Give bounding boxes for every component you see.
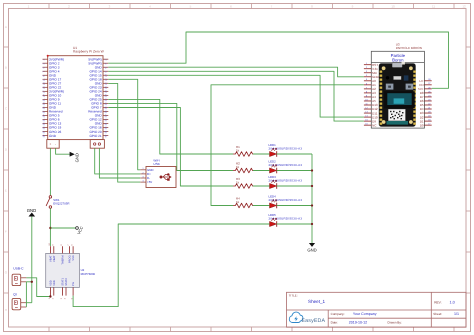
wire switch to VCC junction and U2 VBAT xyxy=(49,208,51,246)
connector USB test-pad header J2 xyxy=(90,140,104,149)
wire LED3 cathode to GND bus xyxy=(277,185,312,187)
svg-text:204-10SURD/S530-A3: 204-10SURD/S530-A3 xyxy=(269,198,303,202)
svg-text:Boron: Boron xyxy=(392,58,404,63)
wire RPi GPIO8 to R2 xyxy=(108,103,233,170)
Boron dev board image xyxy=(379,62,416,127)
svg-text:1k: 1k xyxy=(236,180,240,184)
svg-text:USB: USB xyxy=(153,162,159,166)
svg-text:A: A xyxy=(5,25,7,29)
resistor R1 1k xyxy=(233,145,253,156)
svg-text:1k: 1k xyxy=(236,165,240,169)
svg-text:GND: GND xyxy=(49,134,57,138)
svg-text:PROG: PROG xyxy=(69,255,72,263)
wire RPi GPIO14 to Boron D9 xyxy=(108,71,364,121)
resistor R4 1k xyxy=(233,196,253,207)
svg-text:STAT2: STAT2 xyxy=(65,278,68,286)
wire USB-C lower pin to QI lower pin xyxy=(25,282,27,307)
wire USB-C GND pin to GND net xyxy=(26,281,31,283)
wire RPi GND to WIFI USB +5V xyxy=(108,83,140,182)
wire LED1 cathode to GND bus xyxy=(277,153,312,155)
svg-text:Company:: Company: xyxy=(331,312,345,316)
svg-text:QI: QI xyxy=(13,292,17,296)
LED3 204-10SURD/S530-A3 xyxy=(269,175,303,189)
wire RPi GPIO15 to Boron D10 xyxy=(108,75,364,117)
svg-text:USB-C: USB-C xyxy=(13,267,24,271)
wire GND: RPi GND to Boron GND xyxy=(108,67,364,77)
wire resistor R3 to LED3 xyxy=(253,185,270,187)
wire USB-C VBUS pin to U2 VDD xyxy=(26,278,50,297)
junction xyxy=(31,281,33,283)
svg-text:VDD: VDD xyxy=(53,280,56,286)
svg-text:1k: 1k xyxy=(236,148,240,152)
svg-text:VSS: VSS xyxy=(72,255,75,260)
svg-text:1/1: 1/1 xyxy=(454,312,459,316)
wire pad D- to WIFI USB D- xyxy=(99,148,140,178)
wire LED GND bus vertical xyxy=(311,154,313,243)
svg-text:GPIO 21: GPIO 21 xyxy=(89,134,101,138)
wire RPi GPIO18 to WIFI USB GND xyxy=(108,79,140,170)
junction xyxy=(311,169,313,171)
svg-text:204-10SURD/S530-A3: 204-10SURD/S530-A3 xyxy=(269,178,303,182)
resistor R3 1k xyxy=(233,177,253,188)
connector battery header J1 (+ -) xyxy=(47,140,59,149)
svg-text:10: 10 xyxy=(391,4,395,8)
wire pad D+ to WIFI USB D+ xyxy=(95,148,141,174)
component WIFI USB xyxy=(140,158,176,187)
wire U2 PG to LED5 xyxy=(73,224,269,307)
junction xyxy=(311,185,313,187)
power flag VCC xyxy=(76,225,85,235)
svg-text:H: H xyxy=(5,308,7,312)
svg-text:PARTICLE BORON: PARTICLE BORON xyxy=(396,46,422,50)
wire 5V: RPi 5V(PWR) to Boron 5V+ xyxy=(108,32,448,88)
junction xyxy=(311,223,313,225)
wire GND flag down through USB-C to QI xyxy=(31,217,33,303)
svg-text:11: 11 xyxy=(432,4,435,8)
svg-text:-: - xyxy=(55,142,56,146)
wire LED2 cathode to GND bus xyxy=(277,170,312,172)
connector QI xyxy=(12,292,26,309)
wire RPi GPIO25 to R1 xyxy=(108,99,233,154)
svg-text:THERM: THERM xyxy=(62,255,65,264)
connector USB-C xyxy=(12,267,26,286)
ground GND flag (battery) xyxy=(70,152,80,163)
wire resistor R4 to LED4 xyxy=(253,205,270,207)
svg-text:204-10SURD/S530-A3: 204-10SURD/S530-A3 xyxy=(269,163,303,167)
svg-text:D0: D0 xyxy=(420,123,424,127)
wire battery + to switch SW1 xyxy=(49,148,51,195)
ground GND flag (USB-C) xyxy=(27,208,37,217)
switch SW1 EVQ22705R xyxy=(46,196,69,209)
svg-text:E: E xyxy=(5,189,7,193)
svg-text:PG: PG xyxy=(72,282,75,286)
LED2 204-10SURD/S530-A3 xyxy=(269,159,303,173)
svg-text:+: + xyxy=(50,142,52,146)
LED1 204-10SURD/S530-A3 xyxy=(269,143,303,157)
svg-text:Raspberry Pi Zero W: Raspberry Pi Zero W xyxy=(73,50,105,54)
svg-text:Sheet_1: Sheet_1 xyxy=(308,299,326,304)
svg-text:Date:: Date: xyxy=(331,320,339,324)
svg-text:REV:: REV: xyxy=(434,300,441,304)
title block xyxy=(287,292,467,327)
junction xyxy=(311,204,313,206)
svg-text:MCP73830: MCP73830 xyxy=(81,272,96,276)
LED5 204-10SURD/S530-A3 xyxy=(269,213,303,227)
component U1 Raspberry Pi Zero W xyxy=(43,46,109,140)
EasyEDA logo xyxy=(289,312,325,324)
component U3 Particle Boron xyxy=(364,43,432,129)
svg-text:1.0: 1.0 xyxy=(450,301,455,305)
svg-text:Your Company: Your Company xyxy=(353,312,377,316)
svg-text:204-10SURD/S530-A3: 204-10SURD/S530-A3 xyxy=(269,216,303,220)
svg-text:TITLE:: TITLE: xyxy=(289,294,298,298)
svg-text:EVQ22705R: EVQ22705R xyxy=(53,201,69,205)
wire Boron A1 to R4 xyxy=(211,85,364,206)
wire RPi GPIO7 to R3 xyxy=(108,108,233,187)
wire resistor R2 to LED2 xyxy=(253,170,270,172)
svg-text:1k: 1k xyxy=(236,200,240,204)
svg-text:STAT1: STAT1 xyxy=(62,278,65,286)
svg-text:2019-10-12: 2019-10-12 xyxy=(349,321,367,325)
svg-text:GND: GND xyxy=(75,153,80,162)
component U2 MCP73830 xyxy=(46,242,96,299)
LED4 204-10SURD/S530-A3 xyxy=(269,194,303,208)
svg-text:B: B xyxy=(5,66,7,70)
svg-text:+5V: +5V xyxy=(147,180,152,184)
resistor R2 1k xyxy=(233,161,253,172)
wire junction to VCC flag xyxy=(50,227,75,229)
junction xyxy=(49,227,51,229)
svg-text:12: 12 xyxy=(462,4,466,8)
svg-text:F: F xyxy=(5,230,7,234)
svg-text:204-10SURD/S530-A3: 204-10SURD/S530-A3 xyxy=(269,146,303,150)
wire LED4 cathode to GND bus xyxy=(277,205,312,207)
svg-text:EasyEDA: EasyEDA xyxy=(302,318,326,324)
wire resistor R1 to LED1 xyxy=(253,153,270,155)
wire battery - to GND flag xyxy=(56,148,70,154)
svg-text:GND: GND xyxy=(27,208,37,213)
ground GND flag below LED bus xyxy=(307,243,316,253)
wire LED5 cathode to GND bus xyxy=(277,223,312,225)
svg-text:Drawn By:: Drawn By: xyxy=(388,320,402,324)
svg-text:VBAT: VBAT xyxy=(53,255,56,262)
svg-text:Sheet:: Sheet: xyxy=(433,312,442,316)
svg-text:GND: GND xyxy=(307,248,316,253)
